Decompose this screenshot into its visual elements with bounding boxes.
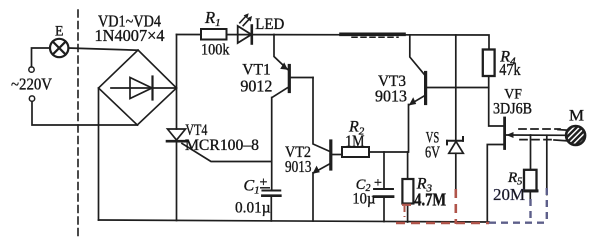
wire: VT1 collector down to C1 / VT4 gate node [271, 98, 273, 191]
top rail [177, 35, 490, 50]
wire: VT3 emitter to timing node [408, 105, 410, 153]
transistor VT2 (9013 NPN) [329, 141, 332, 169]
bottom rail [99, 220, 490, 222]
wire: M drop [546, 135, 548, 194]
transistor VT3 (9013 NPN) [410, 35, 425, 75]
wire: VS column [455, 35, 457, 141]
wire: VS anode down [455, 153, 457, 189]
VF gate wire to touch plate [506, 134, 567, 136]
transistor VT1 (9012 PNP) [274, 35, 287, 70]
svg-text:~220V: ~220V [11, 75, 52, 94]
wire: lower terminal to bridge bottom vertex [32, 101, 138, 125]
FET VF 3DJ6B [503, 118, 506, 149]
cable dashes upper [519, 128, 560, 130]
resistor R1 [201, 29, 227, 40]
wire: VT2 emitter to bottom rail [312, 173, 314, 221]
svg-text:3DJ6B: 3DJ6B [493, 101, 532, 118]
svg-text:10µ: 10µ [352, 191, 375, 208]
bridge inner diode [111, 77, 175, 100]
thyristor VT4 [168, 129, 186, 140]
top rail scan artifact dashes [341, 32, 404, 36]
svg-text:M: M [569, 108, 584, 125]
wire: VT4 cathode to bottom rail [176, 143, 178, 221]
resistor R4 [483, 50, 495, 77]
svg-text:47k: 47k [499, 60, 521, 79]
cable dashes lower [520, 139, 556, 141]
blue annotation dashes [489, 188, 548, 223]
mains separator dashed line [77, 10, 79, 237]
resistor R5 [524, 170, 537, 191]
svg-text:MCR100–8: MCR100–8 [185, 137, 259, 154]
svg-text:1N4007×4: 1N4007×4 [95, 26, 165, 45]
svg-text:E: E [55, 24, 64, 40]
capacitor C2 [383, 152, 385, 189]
wire: R5 tap [530, 135, 532, 170]
svg-text:6V: 6V [425, 143, 440, 162]
svg-text:100k: 100k [201, 41, 230, 58]
wire: lamp to left terminal [32, 48, 51, 67]
svg-text:4.7M: 4.7M [414, 189, 446, 209]
svg-text:9013: 9013 [375, 86, 407, 105]
LED light arrows [240, 15, 250, 25]
wire: R4 to VF drain [489, 76, 504, 126]
svg-text:9013: 9013 [285, 157, 312, 176]
resistor R3 [407, 152, 409, 179]
VF source to bottom rail [487, 145, 503, 223]
wire: VT4 gate [182, 144, 272, 162]
wire: VT1 base to VT2 collector [313, 78, 329, 152]
thyristor VT4 anode wire [176, 88, 178, 129]
red annotation dashes [396, 189, 489, 224]
svg-text:20M: 20M [493, 185, 525, 204]
touch plate M [560, 107, 592, 161]
resistor R2 [342, 147, 369, 157]
terminal: AC lower [29, 96, 34, 101]
capacitor C1 [262, 190, 280, 192]
bridge rectifier VD1~VD4 [99, 50, 177, 125]
LED [238, 26, 252, 44]
svg-text:9012: 9012 [240, 76, 272, 95]
svg-text:+: + [374, 176, 382, 191]
wire: lamp to bridge top vertex [68, 48, 138, 50]
wire: R2 to timing node [369, 151, 408, 153]
terminal: AC upper [29, 67, 34, 72]
zener VS [447, 137, 463, 144]
svg-text:LED: LED [255, 16, 284, 33]
svg-text:1M: 1M [345, 131, 365, 150]
wire: bridge minus column to bottom rail [98, 88, 100, 220]
lamp E [50, 39, 68, 57]
svg-text:0.01µ: 0.01µ [235, 200, 271, 217]
wire: bridge plus vertex up to top rail [176, 35, 178, 89]
